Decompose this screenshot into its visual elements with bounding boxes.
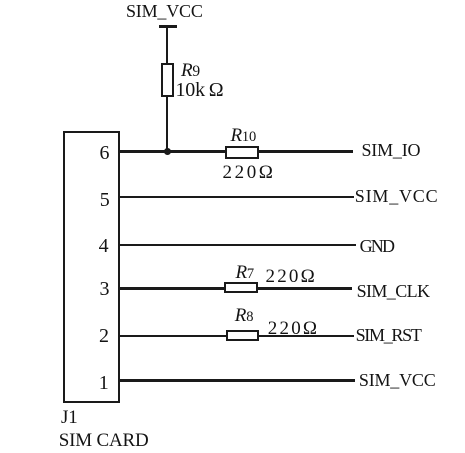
wire pin 2 <box>119 335 354 337</box>
pin number 3 <box>100 279 110 299</box>
pin number 4 <box>99 236 109 256</box>
junction node on pin 6 wire <box>164 148 171 155</box>
pin number 1 <box>99 373 109 393</box>
resistor R10 <box>225 146 259 159</box>
wire: power bar to R9 top and R9 bottom to node <box>166 26 168 152</box>
value label 220Ω (R10) <box>223 163 276 182</box>
value label R10 <box>231 126 257 145</box>
value label 10kΩ <box>176 80 224 100</box>
wire pin 1 <box>119 379 355 381</box>
wire pin 6 <box>119 150 353 152</box>
net label SIM_VCC (top power net) <box>126 2 203 20</box>
net label SIM_CLK <box>357 282 430 300</box>
wire pin 3 <box>119 287 352 289</box>
power symbol SIM_VCC bar <box>159 25 177 28</box>
net label GND <box>360 237 394 255</box>
value label R9 <box>181 61 200 80</box>
net label SIM_IO <box>362 141 421 159</box>
wire pin 5 <box>119 196 354 198</box>
value label 220Ω (R7) <box>266 267 317 286</box>
resistor R8 <box>226 330 259 342</box>
net label SIM_VCC (pin 5) <box>355 187 439 205</box>
designator J1 <box>61 408 78 427</box>
pin number 6 <box>100 143 110 163</box>
value label R8 <box>235 306 253 325</box>
wire pin 4 <box>119 244 356 246</box>
connector J1 box <box>63 131 120 403</box>
value label R7 <box>236 263 254 282</box>
resistor R7 <box>224 282 258 293</box>
resistor R9 <box>161 63 175 97</box>
pin number 5 <box>100 190 110 210</box>
part label SIM CARD <box>59 431 149 450</box>
value label 220Ω (R8) <box>268 319 319 338</box>
pin number 2 <box>99 326 109 346</box>
net label SIM_VCC (pin 1) <box>359 371 436 389</box>
net label SIM_RST <box>356 326 421 344</box>
